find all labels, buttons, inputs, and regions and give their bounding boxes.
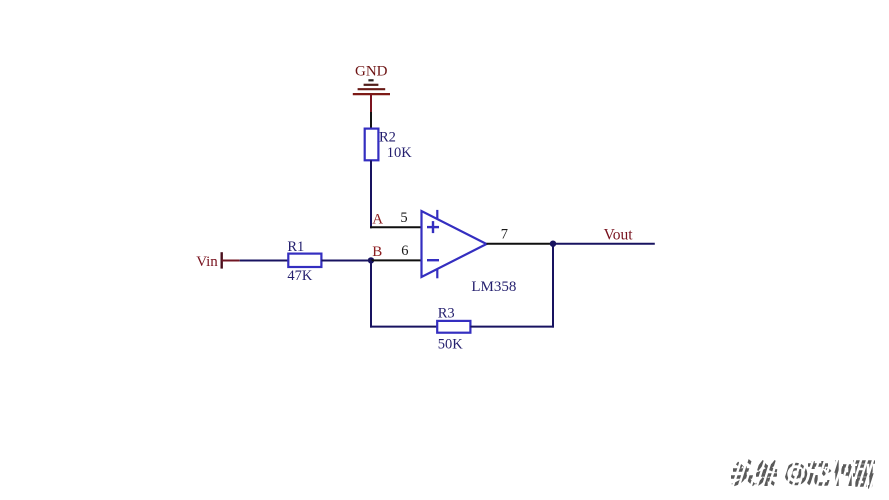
- wire bottom left to R3: [370, 326, 437, 328]
- label R3: [438, 306, 455, 322]
- output junction dot: [550, 241, 556, 247]
- op-amp minus input marker: [427, 259, 439, 261]
- svg-text:10K: 10K: [387, 145, 413, 161]
- wire output to Vout: [553, 243, 655, 245]
- watermark char ge: [853, 462, 875, 487]
- svg-text:GND: GND: [355, 63, 388, 79]
- resistor R3: [437, 321, 470, 333]
- watermark at sign: [786, 464, 806, 484]
- value 47K: [287, 268, 313, 284]
- watermark char tou: [731, 460, 754, 485]
- op-amp top power stub: [436, 210, 438, 219]
- svg-text:LM358: LM358: [471, 279, 516, 295]
- pin number 7: [501, 226, 508, 242]
- value 10K: [387, 145, 413, 161]
- watermark char xin: [808, 461, 830, 484]
- svg-text:7: 7: [501, 226, 508, 242]
- wire R1 to node B: [321, 260, 371, 262]
- pin 5 wire: [370, 226, 422, 228]
- svg-text:50K: 50K: [438, 337, 464, 353]
- ground stem wire (red part): [370, 94, 372, 112]
- svg-text:5: 5: [400, 210, 407, 226]
- node A label: [372, 212, 383, 228]
- watermark char pian: [833, 460, 851, 486]
- svg-text:R1: R1: [287, 239, 304, 255]
- wire GND to R2: [370, 112, 372, 129]
- pin 7 wire: [487, 243, 554, 245]
- pin number 5: [400, 210, 407, 226]
- wire node B down: [370, 260, 372, 327]
- svg-text:Vout: Vout: [604, 226, 634, 243]
- resistor R1: [288, 254, 321, 267]
- Vin port tick: [220, 252, 222, 268]
- wire Vin to R1: [240, 260, 289, 262]
- label R2: [379, 130, 396, 146]
- svg-text:Vin: Vin: [196, 254, 218, 270]
- op-amp bottom power stub: [436, 269, 438, 278]
- value 50K: [438, 337, 464, 353]
- label R1: [287, 239, 304, 255]
- wire R3 to right riser: [470, 326, 554, 328]
- op-amp plus input marker: [427, 221, 439, 233]
- part name LM358: [471, 279, 516, 295]
- power symbol GND label: [355, 63, 388, 79]
- watermark char tiao: [756, 461, 777, 486]
- svg-text:6: 6: [401, 243, 408, 259]
- node B junction dot: [368, 257, 374, 263]
- wire right riser up to output: [552, 244, 554, 328]
- svg-text:R3: R3: [438, 306, 455, 322]
- node B label: [372, 244, 382, 260]
- svg-text:R2: R2: [379, 130, 396, 146]
- svg-text:B: B: [372, 244, 382, 260]
- pin 6 wire: [371, 259, 422, 261]
- ground symbol bars: [353, 80, 390, 94]
- svg-text:A: A: [372, 212, 383, 228]
- Vin net label: [196, 254, 218, 270]
- svg-text:47K: 47K: [287, 268, 313, 284]
- watermark white hatch stripes: [731, 454, 881, 492]
- pin number 6: [401, 243, 408, 259]
- wire R2 to node A: [370, 160, 372, 228]
- watermark toutiao text: [731, 454, 881, 492]
- Vout net label: [604, 226, 634, 243]
- op-amp U1 triangle: [422, 211, 487, 277]
- resistor R2: [365, 129, 379, 161]
- wire Vin red segment: [222, 260, 240, 262]
